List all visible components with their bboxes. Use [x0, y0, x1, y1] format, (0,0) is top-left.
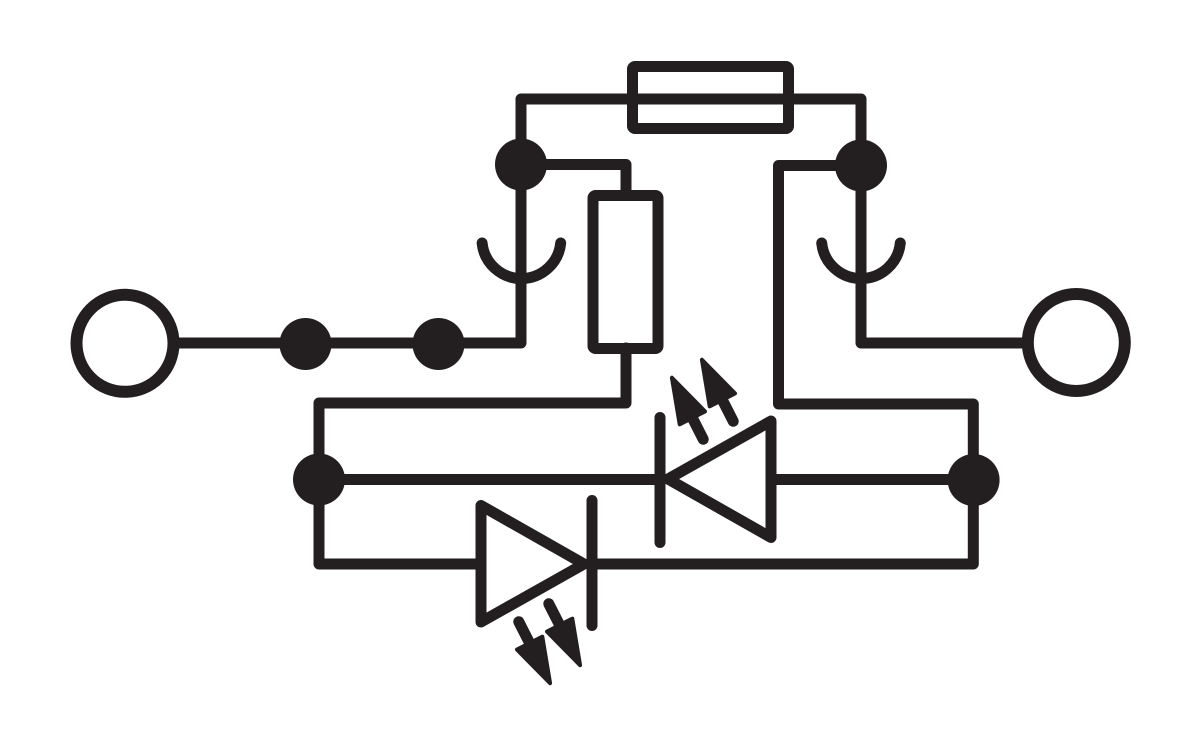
- junction dot lower-right: [948, 454, 1000, 506]
- LED D1 (middle rail, pointing left): [659, 353, 771, 542]
- terminal circle right: [1028, 294, 1125, 391]
- junction dot top-right: [835, 140, 887, 192]
- wire right dot down, lower-right loop and bottom rail to LED2 cathode: [592, 166, 973, 565]
- terminal circle left: [77, 295, 174, 392]
- fuse F1: [633, 67, 789, 129]
- junction dot lower-left: [293, 454, 345, 506]
- wire resistor bottom to lower-left loop and bottom rail to LED2 anode: [319, 348, 626, 564]
- wire top loop (left dot up, across through fuse, down to right dot): [521, 99, 861, 167]
- wire dot left-feed 2: [413, 318, 465, 370]
- clamp contact hook right: [822, 243, 901, 279]
- LED D2 (bottom rail, rotated 180deg): [481, 501, 593, 690]
- wire right clamp vertical to right terminal: [861, 166, 1028, 344]
- wire middle rail left segment: [319, 474, 655, 485]
- wire middle rail right segment: [771, 474, 973, 485]
- junction dot top-left: [495, 139, 547, 191]
- clamp contact hook left: [482, 243, 561, 279]
- wire left terminal to left clamp vertical: [174, 165, 521, 344]
- wire left dot to resistor top: [521, 165, 626, 195]
- resistor R1: [593, 196, 658, 349]
- wire dot left-feed 1: [280, 318, 332, 370]
